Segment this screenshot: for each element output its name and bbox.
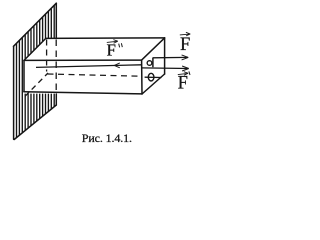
beam bottom right diagonal [142, 74, 165, 94]
beam top back edge [46, 37, 165, 40]
svg-text:F: F [178, 74, 188, 94]
wall hatching below beam [25, 94, 54, 131]
wall back edge upper [55, 3, 57, 38]
beam top-left wall intersection diagonal [24, 38, 46, 60]
hidden hole bottom diagonal (dashed) [25, 73, 48, 96]
point a label [147, 58, 153, 68]
beam top right diagonal [142, 38, 165, 60]
wall front edge [13, 46, 15, 139]
wall hatching upper/left [17, 5, 55, 137]
hidden beam back bottom edge (dashed) [48, 74, 141, 76]
beam front top edge [24, 59, 142, 61]
beam back right edge [164, 38, 166, 74]
wall bottom edge [14, 105, 56, 140]
point O symbol [148, 73, 154, 81]
vector bar of F [180, 32, 191, 36]
svg-text:F: F [180, 35, 190, 55]
force F' arrow at point O [142, 67, 189, 70]
hidden wall back edge behind beam (dashed vertical) [55, 40, 57, 92]
beam front left edge [23, 60, 25, 91]
prime mark [189, 71, 190, 75]
beam front bottom edge [24, 92, 142, 94]
force F'' arrow (pointing left inside beam) [36, 65, 142, 68]
beam front right edge [141, 60, 143, 94]
bar through point O [145, 76, 162, 78]
double prime marks [119, 43, 123, 47]
wall back edge lower [55, 94, 57, 105]
svg-text:Рис. 1.4.1.: Рис. 1.4.1. [82, 131, 132, 145]
force F arrow at point a [153, 56, 188, 58]
wall top edge [14, 3, 57, 46]
hidden hole back edge (dashed vertical) [46, 40, 48, 72]
vector bar of F double prime [107, 40, 118, 44]
vector bar of F prime [178, 72, 188, 76]
